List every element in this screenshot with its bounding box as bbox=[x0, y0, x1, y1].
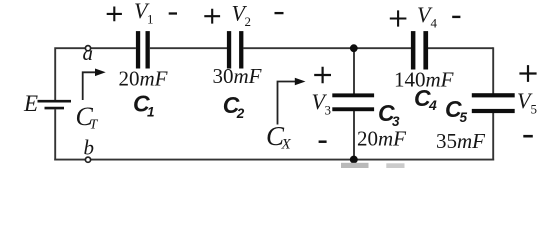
wire: C3 branch lower bbox=[353, 111, 355, 160]
capacitor C3 plates bbox=[332, 93, 374, 97]
wire: bottom rail bbox=[54, 159, 494, 161]
plus V1 bbox=[107, 7, 122, 22]
watermark gray block right bbox=[386, 163, 404, 168]
minus V3 bbox=[319, 140, 327, 143]
plus V4 bbox=[390, 10, 407, 26]
plus V2 bbox=[204, 9, 220, 24]
capacitor C2 plates bbox=[227, 31, 231, 68]
svg-text:35mF: 35mF bbox=[436, 129, 485, 153]
svg-text:2: 2 bbox=[236, 106, 245, 121]
svg-text:4: 4 bbox=[431, 16, 438, 31]
node bottom junction dot bbox=[350, 156, 358, 164]
svg-text:20mF: 20mF bbox=[119, 66, 168, 90]
capacitor C4 plates bbox=[411, 31, 416, 69]
capacitor C5 plates bbox=[472, 93, 515, 97]
wire: right wire lower bbox=[492, 113, 494, 161]
wire: top rail left segment (left corner to C1) bbox=[55, 48, 136, 100]
wire: top rail C1 to C2 bbox=[150, 47, 227, 49]
plus V5 bbox=[519, 65, 536, 82]
arrow CT bbox=[83, 72, 97, 100]
svg-text:1: 1 bbox=[147, 11, 154, 26]
wire: right wire upper bbox=[492, 47, 494, 94]
terminal a bbox=[85, 46, 90, 51]
capacitor C1 plates bbox=[136, 31, 140, 68]
minus V1 bbox=[169, 12, 177, 14]
svg-text:20mF: 20mF bbox=[357, 126, 406, 150]
wire: C3 branch upper bbox=[353, 48, 355, 94]
minus V5 bbox=[523, 135, 533, 138]
svg-text:4: 4 bbox=[428, 97, 437, 113]
wire: top rail C2 to C4 (through node) bbox=[243, 47, 411, 49]
svg-text:30mF: 30mF bbox=[213, 64, 262, 88]
svg-text:1: 1 bbox=[147, 105, 155, 120]
node top junction dot bbox=[350, 44, 358, 52]
plus V3 bbox=[314, 67, 331, 83]
arrow CX bbox=[278, 82, 297, 125]
svg-text:5: 5 bbox=[531, 102, 538, 117]
svg-text:E: E bbox=[23, 91, 38, 116]
wire: left wire lower (battery to bottom rail) bbox=[54, 109, 56, 160]
svg-text:b: b bbox=[84, 135, 95, 159]
wire: top rail C4 to right corner bbox=[428, 47, 493, 49]
svg-text:2: 2 bbox=[245, 14, 252, 29]
minus V2 bbox=[275, 12, 284, 14]
svg-text:T: T bbox=[90, 118, 99, 133]
svg-text:3: 3 bbox=[325, 103, 332, 118]
terminal b bbox=[85, 157, 90, 162]
svg-text:5: 5 bbox=[460, 110, 468, 125]
watermark gray block left bbox=[341, 163, 369, 168]
battery E long plate bbox=[38, 100, 72, 103]
svg-text:a: a bbox=[83, 41, 94, 65]
svg-text:X: X bbox=[281, 137, 292, 153]
minus V4 bbox=[452, 16, 460, 18]
battery E short plate bbox=[45, 107, 65, 110]
